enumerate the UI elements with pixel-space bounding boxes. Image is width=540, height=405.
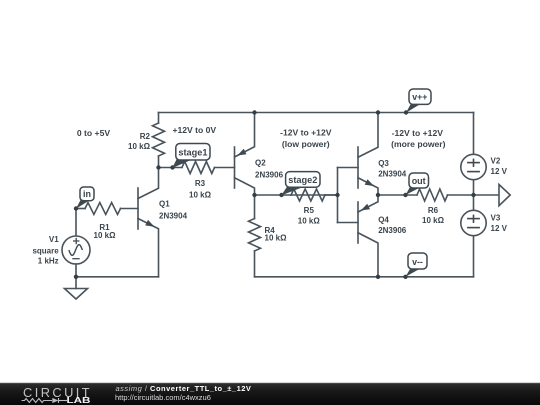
svg-text:LAB: LAB — [67, 396, 92, 405]
svg-text:(more power): (more power) — [391, 139, 446, 149]
svg-text:Q1: Q1 — [159, 200, 170, 209]
svg-text:0 to +5V: 0 to +5V — [77, 128, 110, 138]
svg-text:10 kΩ: 10 kΩ — [128, 142, 151, 151]
svg-text:10 kΩ: 10 kΩ — [298, 216, 321, 225]
svg-text:V3: V3 — [491, 214, 501, 223]
svg-text:out: out — [412, 176, 426, 186]
svg-text:V1: V1 — [49, 235, 59, 244]
svg-text:2N3904: 2N3904 — [378, 170, 407, 179]
svg-text:Q2: Q2 — [255, 159, 266, 168]
svg-text:Q3: Q3 — [378, 159, 389, 168]
svg-text:2N3906: 2N3906 — [255, 170, 284, 179]
svg-text:-12V to +12V: -12V to +12V — [392, 128, 444, 138]
svg-text:2N3906: 2N3906 — [378, 226, 407, 235]
svg-text:stage1: stage1 — [178, 147, 207, 157]
svg-text:10 kΩ: 10 kΩ — [265, 234, 288, 243]
svg-text:2N3904: 2N3904 — [159, 211, 188, 220]
svg-text:Q4: Q4 — [378, 216, 389, 225]
svg-text:v++: v++ — [412, 92, 427, 102]
svg-text:square: square — [32, 246, 59, 255]
svg-text:v--: v-- — [412, 257, 423, 267]
svg-text:stage2: stage2 — [288, 175, 317, 185]
svg-text:R2: R2 — [140, 132, 151, 141]
svg-text:R3: R3 — [195, 179, 206, 188]
svg-text:10 kΩ: 10 kΩ — [94, 231, 117, 240]
svg-text:R5: R5 — [304, 206, 315, 215]
svg-text:-12V to +12V: -12V to +12V — [280, 128, 332, 138]
svg-text:12 V: 12 V — [491, 224, 508, 233]
svg-text:+12V to 0V: +12V to 0V — [172, 125, 216, 135]
svg-text:1 kHz: 1 kHz — [38, 257, 59, 266]
svg-text:http://circuitlab.com/c4wxzu6: http://circuitlab.com/c4wxzu6 — [115, 393, 211, 402]
svg-text:in: in — [83, 189, 91, 199]
svg-text:assimg / Converter_TTL_to_±_12: assimg / Converter_TTL_to_±_12V — [116, 384, 252, 393]
svg-text:R6: R6 — [428, 206, 439, 215]
svg-text:10 kΩ: 10 kΩ — [422, 216, 445, 225]
svg-text:(low power): (low power) — [282, 139, 330, 149]
svg-text:12 V: 12 V — [491, 167, 508, 176]
svg-text:V2: V2 — [491, 157, 501, 166]
svg-text:10 kΩ: 10 kΩ — [189, 190, 212, 199]
